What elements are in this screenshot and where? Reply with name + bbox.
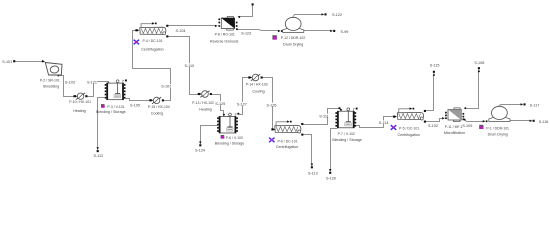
svg-text:P-6 / V-103: P-6 / V-103 bbox=[226, 136, 243, 140]
svg-text:P-3 / V-101: P-3 / V-101 bbox=[107, 105, 124, 109]
svg-text:S-114: S-114 bbox=[379, 121, 389, 125]
svg-text:Drum Drying: Drum Drying bbox=[488, 133, 508, 137]
svg-text:Heating: Heating bbox=[199, 107, 211, 111]
svg-text:Blending / Storage: Blending / Storage bbox=[215, 142, 245, 146]
svg-text:S-117: S-117 bbox=[530, 104, 540, 108]
svg-text:Shredding: Shredding bbox=[43, 84, 59, 88]
svg-text:S-103: S-103 bbox=[65, 81, 75, 85]
svg-text:P-15 / HX-104: P-15 / HX-104 bbox=[148, 105, 170, 109]
svg-text:P-8 / RO-101: P-8 / RO-101 bbox=[215, 33, 235, 37]
svg-text:P-7 / V-102: P-7 / V-102 bbox=[338, 132, 355, 136]
svg-text:Blending / Storage: Blending / Storage bbox=[96, 110, 126, 114]
svg-text:Centrifugation: Centrifugation bbox=[276, 145, 298, 149]
svg-text:S-121: S-121 bbox=[87, 81, 97, 85]
svg-text:S-108: S-108 bbox=[474, 61, 484, 65]
svg-text:S-116: S-116 bbox=[539, 120, 549, 124]
svg-text:S-115: S-115 bbox=[430, 63, 440, 67]
svg-text:S-113: S-113 bbox=[308, 172, 318, 176]
svg-text:P-2 / SR-101: P-2 / SR-101 bbox=[40, 79, 60, 83]
svg-text:S-104: S-104 bbox=[176, 29, 186, 33]
svg-text:P-10 / HX-101: P-10 / HX-101 bbox=[69, 100, 91, 104]
svg-text:P-14 / HX-103: P-14 / HX-103 bbox=[246, 82, 268, 86]
svg-text:P-5 / DC-101: P-5 / DC-101 bbox=[399, 127, 419, 131]
svg-text:P-11 / MF-1: P-11 / MF-1 bbox=[445, 125, 463, 129]
svg-text:Centrifugation: Centrifugation bbox=[141, 48, 163, 52]
svg-text:S-102: S-102 bbox=[428, 124, 438, 128]
svg-text:S-127: S-127 bbox=[237, 103, 247, 107]
svg-text:S-110: S-110 bbox=[184, 64, 194, 68]
svg-text:S-125: S-125 bbox=[215, 102, 225, 106]
svg-text:P-12 / DDR-102: P-12 / DDR-102 bbox=[281, 36, 306, 40]
svg-text:S-123: S-123 bbox=[241, 32, 251, 36]
svg-text:Reverse Osmosis: Reverse Osmosis bbox=[210, 39, 239, 43]
svg-text:Blending / Storage: Blending / Storage bbox=[332, 138, 362, 142]
svg-text:S-111: S-111 bbox=[319, 114, 328, 118]
svg-text:S-99: S-99 bbox=[340, 30, 348, 34]
svg-text:S-107: S-107 bbox=[161, 85, 171, 89]
svg-text:P-13 / HX-102: P-13 / HX-102 bbox=[192, 101, 214, 105]
svg-text:S-120: S-120 bbox=[326, 176, 336, 180]
svg-text:Microfiltration: Microfiltration bbox=[444, 131, 465, 135]
svg-text:Centrifugation: Centrifugation bbox=[398, 133, 420, 137]
svg-text:P-4 / DC-101: P-4 / DC-101 bbox=[142, 39, 162, 43]
svg-text:Heating: Heating bbox=[73, 109, 85, 113]
svg-text:S-112: S-112 bbox=[93, 154, 103, 158]
svg-text:Drum Drying: Drum Drying bbox=[283, 42, 303, 46]
svg-text:S-109: S-109 bbox=[462, 124, 472, 128]
svg-text:P-6 / DC-101: P-6 / DC-101 bbox=[277, 139, 297, 143]
svg-text:S-124: S-124 bbox=[195, 149, 205, 153]
svg-text:S-101: S-101 bbox=[2, 60, 12, 64]
svg-text:Cooling: Cooling bbox=[151, 112, 163, 116]
svg-text:S-126: S-126 bbox=[267, 103, 277, 107]
svg-text:S-122: S-122 bbox=[332, 13, 342, 17]
svg-text:P-1 / DDR-101: P-1 / DDR-101 bbox=[486, 126, 509, 130]
svg-text:S-105: S-105 bbox=[130, 103, 140, 107]
svg-text:Cooling: Cooling bbox=[252, 90, 264, 94]
